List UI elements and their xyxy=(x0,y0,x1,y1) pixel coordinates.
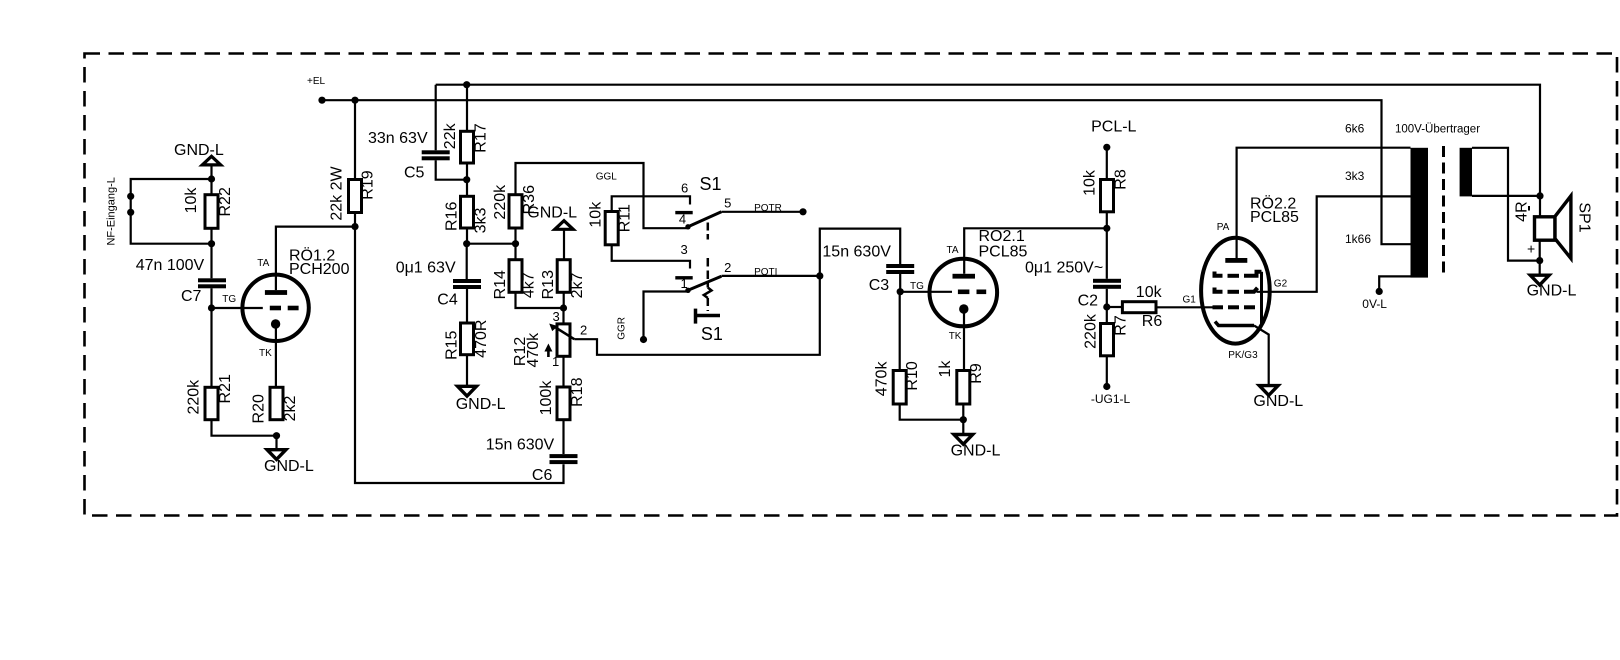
resistor R9 1k xyxy=(957,371,970,405)
svg-text:15n 630V: 15n 630V xyxy=(822,244,891,261)
switch S1 upper lever xyxy=(688,212,721,227)
svg-text:+EL: +EL xyxy=(307,76,326,87)
switch S1 lower lever xyxy=(688,276,721,290)
tube RO2.2 grid row 3 G1 xyxy=(1213,305,1224,309)
switch S1 mechanical link dashed xyxy=(707,223,710,240)
trimmer R12 adjust arrow xyxy=(547,348,550,357)
resistor R19 22k 2W xyxy=(354,100,356,179)
svg-text:2: 2 xyxy=(724,260,731,275)
svg-text:-UG1-L: -UG1-L xyxy=(1091,392,1131,406)
tube RO2.2 cathode line xyxy=(1215,322,1254,326)
svg-text:6: 6 xyxy=(681,181,688,196)
svg-text:22k: 22k xyxy=(442,122,459,149)
node POTR terminal xyxy=(799,208,806,215)
node input terminal lower xyxy=(127,209,134,216)
svg-text:PA: PA xyxy=(1217,222,1230,233)
wire cathode TK lead xyxy=(275,324,277,387)
node junction R36 bottom xyxy=(512,240,519,247)
transformer secondary winding bar xyxy=(1460,148,1472,197)
resistor R16 3k3 xyxy=(466,180,468,197)
svg-text:TG: TG xyxy=(910,281,924,292)
svg-text:GND-L: GND-L xyxy=(951,443,1001,460)
svg-text:S1: S1 xyxy=(700,174,722,194)
svg-text:R7: R7 xyxy=(1113,315,1130,336)
svg-text:470R: 470R xyxy=(473,320,490,358)
node junction R8 bottom anode line xyxy=(1103,225,1110,232)
svg-text:4: 4 xyxy=(679,211,686,226)
tube RO2.2 grid row 2 G2 xyxy=(1215,288,1223,292)
svg-text:PCH200: PCH200 xyxy=(289,261,350,278)
svg-text:GND-L: GND-L xyxy=(264,458,314,475)
svg-text:TK: TK xyxy=(949,331,962,342)
svg-text:C4: C4 xyxy=(437,292,458,309)
wire RO2.1 anode riser to R8 node xyxy=(964,228,1107,273)
svg-text:1: 1 xyxy=(552,354,559,369)
svg-text:GND-L: GND-L xyxy=(1527,283,1577,300)
svg-text:GND-L: GND-L xyxy=(1253,393,1303,410)
wire +EL rail y=100 xyxy=(322,100,1411,244)
transformer core dashed xyxy=(1442,146,1445,278)
resistor R15 470R xyxy=(466,289,468,323)
wire RO2.1 cathode TK lead xyxy=(963,309,965,370)
wire upper rail y=84.7 xyxy=(436,85,1540,196)
node TG junction RO2.1 xyxy=(897,288,904,295)
svg-text:C2: C2 xyxy=(1078,293,1099,310)
svg-text:C3: C3 xyxy=(869,277,890,294)
svg-text:4R: 4R xyxy=(1514,201,1531,221)
node input terminal upper xyxy=(127,193,134,200)
wire secondary bottom lead xyxy=(1472,195,1540,197)
wire R19 node down to bottom rail and C6 xyxy=(355,227,564,483)
tube RO2.1 grid dashes xyxy=(958,289,970,294)
svg-text:NF-Eingang-L: NF-Eingang-L xyxy=(106,177,118,245)
svg-text:3: 3 xyxy=(681,242,688,257)
node junction R13/R14/R12 xyxy=(560,304,567,311)
speaker SP1 box xyxy=(1535,217,1556,240)
tube RO2.2 screen grid row 1 xyxy=(1215,272,1223,276)
svg-text:TG: TG xyxy=(222,294,236,305)
wire R16 bottom to R36 bottom xyxy=(467,243,516,245)
svg-text:R14: R14 xyxy=(492,270,509,299)
svg-text:220k: 220k xyxy=(186,379,203,415)
svg-text:0V-L: 0V-L xyxy=(1362,297,1387,311)
resistor R36 220k xyxy=(509,195,522,228)
svg-text:100k: 100k xyxy=(538,380,555,416)
node junction TA / R19 xyxy=(351,223,358,230)
svg-text:RÖ2.1: RÖ2.1 xyxy=(979,227,1025,245)
svg-text:2: 2 xyxy=(580,323,587,338)
svg-text:TK: TK xyxy=(259,348,272,359)
resistor R7 220k xyxy=(1106,307,1108,324)
wire lower pivot to GGR xyxy=(644,292,688,340)
svg-text:5: 5 xyxy=(724,196,731,211)
svg-text:1k: 1k xyxy=(937,360,954,378)
wire R6 to G1 grid xyxy=(1156,306,1213,308)
svg-text:TA: TA xyxy=(947,245,959,256)
resistor R20 2k2 xyxy=(270,387,283,419)
tube U RO2.1 PCL85 envelope xyxy=(930,259,998,327)
svg-text:22k 2W: 22k 2W xyxy=(329,165,346,220)
resistor R11 10k xyxy=(605,212,618,245)
wire POTI junction to C3 xyxy=(820,229,900,276)
svg-text:R17: R17 xyxy=(473,123,490,152)
svg-text:R6: R6 xyxy=(1142,313,1163,330)
svg-text:PCL85: PCL85 xyxy=(979,244,1028,261)
wire anode riser to R19 node xyxy=(276,227,355,291)
svg-text:POTR: POTR xyxy=(754,203,782,214)
node -UG1-L terminal xyxy=(1103,383,1110,390)
svg-text:R9: R9 xyxy=(968,363,985,384)
svg-text:PCL85: PCL85 xyxy=(1250,209,1299,226)
transformer primary winding bar xyxy=(1411,148,1429,278)
tube RO2.2 internal connection rail xyxy=(1260,272,1263,326)
svg-text:R8: R8 xyxy=(1113,169,1130,190)
resistor R14 4k7 xyxy=(514,244,516,260)
svg-text:10k: 10k xyxy=(588,201,605,228)
tube RO1.2 cathode dot xyxy=(271,319,280,328)
svg-text:R20: R20 xyxy=(251,394,268,423)
svg-text:1k66: 1k66 xyxy=(1345,232,1371,246)
svg-text:GND-L: GND-L xyxy=(456,396,506,413)
svg-text:GGL: GGL xyxy=(596,172,618,183)
node TG junction xyxy=(208,304,215,311)
svg-text:470k: 470k xyxy=(525,332,542,368)
svg-text:0μ1 250V~: 0μ1 250V~ xyxy=(1025,260,1103,277)
ground GND-L under speaker xyxy=(1539,261,1541,276)
svg-text:S1: S1 xyxy=(701,324,723,344)
wire secondary top lead to speaker plus xyxy=(1472,148,1540,261)
svg-text:C7: C7 xyxy=(181,288,202,305)
svg-text:4k7: 4k7 xyxy=(521,272,538,298)
tube U RO2.2 PCL85 envelope xyxy=(1201,238,1270,344)
svg-text:100V-Übertrager: 100V-Übertrager xyxy=(1395,123,1480,135)
node junction R19 top xyxy=(351,97,358,104)
svg-text:R21: R21 xyxy=(217,374,234,403)
node junction R16 bottom xyxy=(463,240,470,247)
svg-text:G2: G2 xyxy=(1274,278,1288,289)
wire RO2.2 anode riser 6k6 line to transformer xyxy=(1237,148,1411,258)
tube RO2.1 anode plate TA xyxy=(953,274,976,279)
svg-text:R10: R10 xyxy=(904,361,921,390)
svg-text:2k7: 2k7 xyxy=(569,273,586,299)
svg-text:PK/G3: PK/G3 xyxy=(1228,350,1258,361)
svg-text:SP1: SP1 xyxy=(1576,202,1593,232)
svg-text:POTI: POTI xyxy=(754,267,777,278)
node input loop top junction xyxy=(208,175,215,182)
ground GND-L under R9 xyxy=(962,420,964,435)
node 0V-L terminal xyxy=(1376,288,1383,295)
svg-text:R15: R15 xyxy=(443,330,460,359)
node junction C5/R17/R16 xyxy=(463,176,470,183)
svg-text:GND-L: GND-L xyxy=(527,205,577,222)
svg-text:220k: 220k xyxy=(492,184,509,220)
trimmer R12 wiper arrow xyxy=(555,327,575,339)
node junction R20 bottom xyxy=(273,432,280,439)
resistor R18 100k xyxy=(562,356,564,387)
wire R11 bottom to contact 3 xyxy=(612,245,690,269)
svg-text:6k6: 6k6 xyxy=(1345,121,1365,135)
resistor R21 220k xyxy=(205,387,218,419)
node +EL terminal xyxy=(318,97,325,104)
node junction speaker top xyxy=(1536,192,1543,199)
switch S1 contact 4 bar xyxy=(675,211,692,214)
node junction R17 top xyxy=(463,81,470,88)
resistor R13 2k7 xyxy=(557,260,570,293)
svg-text:220k: 220k xyxy=(1082,313,1099,349)
tube U RO1.2 PCH200 envelope xyxy=(242,275,308,341)
svg-text:TA: TA xyxy=(257,258,269,269)
ground GND-L under R15 xyxy=(466,355,468,387)
wire speaker bottom xyxy=(1539,240,1541,260)
node junction C2/R7/R6 xyxy=(1103,303,1110,310)
resistor R10 470k xyxy=(899,292,901,371)
svg-text:3k3: 3k3 xyxy=(1345,169,1365,183)
resistor R17 22k xyxy=(466,85,468,132)
wire C7 to R21 xyxy=(210,288,212,387)
wire R21 bottom to R20 bottom xyxy=(212,420,277,436)
svg-text:0μ1 63V: 0μ1 63V xyxy=(396,260,456,277)
svg-text:R18: R18 xyxy=(569,377,586,406)
svg-text:PCL-L: PCL-L xyxy=(1091,119,1136,136)
resistor R22 10k xyxy=(205,195,218,229)
svg-text:R19: R19 xyxy=(360,170,377,199)
wire input loop NF-Eingang-L xyxy=(131,179,212,244)
border frame (decorative) xyxy=(85,54,1618,516)
node GGR terminal xyxy=(640,336,647,343)
node junction R9 bottom xyxy=(960,416,967,423)
tube RO1.2 grid dashes xyxy=(270,306,281,311)
wire to speaker xyxy=(1539,196,1541,217)
node junction speaker bottom plus xyxy=(1536,257,1543,264)
svg-text:2k2: 2k2 xyxy=(282,396,299,422)
svg-text:15n 630V: 15n 630V xyxy=(486,437,555,454)
svg-text:C6: C6 xyxy=(532,467,553,484)
wire TG to tube RO2.1 grid xyxy=(900,291,952,293)
node junction R22 bottom xyxy=(208,240,215,247)
svg-text:C5: C5 xyxy=(404,165,425,182)
ground GND-L under R20 xyxy=(275,436,277,450)
tube RO2.1 cathode dot xyxy=(959,304,968,313)
switch S1 actuator symbol xyxy=(694,309,698,324)
wire G2 lead to 3k3 tap xyxy=(1257,196,1411,291)
wire R11 top to contact 6 xyxy=(612,196,690,211)
svg-text:+: + xyxy=(1527,240,1535,256)
svg-text:R11: R11 xyxy=(617,204,634,232)
svg-text:10k: 10k xyxy=(183,187,200,214)
svg-text:G1: G1 xyxy=(1183,294,1197,305)
svg-text:3: 3 xyxy=(553,309,560,324)
wire PK/G3 lead xyxy=(1254,326,1269,386)
svg-text:R16: R16 xyxy=(443,202,460,231)
tube RO1.2 anode plate TA xyxy=(265,290,287,295)
speaker SP1 horn xyxy=(1555,196,1571,259)
wire TG to tube grid xyxy=(212,307,263,309)
svg-text:10k: 10k xyxy=(1082,169,1099,196)
wire R14 bottom to R12 node xyxy=(516,292,564,308)
wire POTI to junction xyxy=(722,275,820,277)
wire R36 top GGL to S1 upper pivot xyxy=(516,163,688,228)
svg-text:GGR: GGR xyxy=(617,317,628,340)
svg-text:47n 100V: 47n 100V xyxy=(136,257,205,274)
svg-text:470k: 470k xyxy=(874,361,891,397)
wire R10 bottom to R9 bottom xyxy=(900,404,964,420)
wire 0V-L tap xyxy=(1379,276,1410,291)
svg-text:GND-L: GND-L xyxy=(174,142,224,159)
resistor R6 10k horizontal xyxy=(1107,306,1123,308)
ground GND-L under PK/G3 xyxy=(1259,386,1278,396)
svg-text:3k3: 3k3 xyxy=(473,208,490,234)
switch S1 contact 1 bar xyxy=(675,276,692,279)
node POTI junction xyxy=(816,272,823,279)
svg-text:R22: R22 xyxy=(217,187,234,216)
svg-text:33n 63V: 33n 63V xyxy=(368,130,428,147)
wire POTR xyxy=(722,211,804,213)
resistor R8 10k xyxy=(1106,147,1108,179)
svg-text:R13: R13 xyxy=(540,270,557,299)
wire R12 wiper to POTI junction xyxy=(574,276,820,355)
tube RO2.2 anode plate PA xyxy=(1225,258,1247,263)
trimmer R12 470k xyxy=(562,308,564,324)
svg-text:10k: 10k xyxy=(1136,284,1163,301)
